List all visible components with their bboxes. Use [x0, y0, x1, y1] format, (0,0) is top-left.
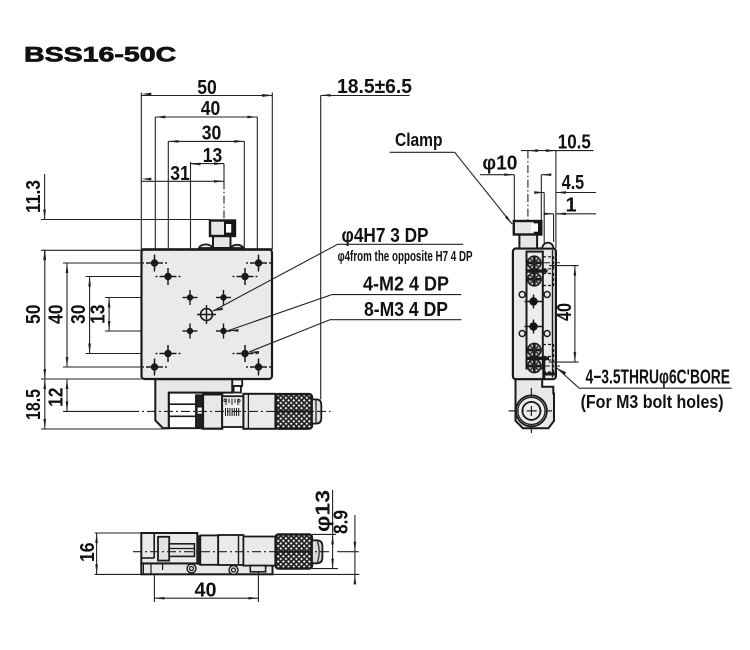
bottom view lock block — [200, 535, 218, 564]
bottom view barrel — [243, 537, 275, 566]
screw centerlines — [543, 263, 560, 366]
svg-text:50: 50 — [197, 77, 217, 99]
clamp neck — [213, 236, 231, 248]
side dome — [542, 243, 553, 249]
screw phillips 4 — [528, 359, 541, 372]
micrometer centerline — [130, 410, 331, 412]
annotation 4-3.5 THRU — [557, 366, 732, 411]
hole M2 top-left — [183, 290, 198, 305]
annotation φ4H7 3 DP — [213, 225, 463, 311]
screw phillips 3 — [528, 343, 541, 356]
clamp dome left — [199, 244, 213, 248]
hole M2 top-right — [216, 290, 231, 305]
label Clamp — [390, 130, 513, 224]
side hole 4 — [544, 331, 550, 337]
side hole 3 — [519, 331, 525, 337]
side clamp centerline — [527, 151, 529, 255]
knob centerline — [223, 164, 225, 182]
bottom knurl — [276, 534, 312, 568]
bottom cap — [312, 540, 322, 563]
thimble end circles — [516, 395, 547, 426]
svg-text:4.5: 4.5 — [562, 172, 585, 194]
plate top edge thick — [142, 248, 273, 250]
dimension 11.3 — [23, 174, 46, 260]
svg-text:BSS16-50C: BSS16-50C — [24, 43, 176, 66]
svg-text:φ4H7 3 DP: φ4H7 3 DP — [342, 225, 429, 247]
annotation 4-M2 4 DP — [229, 274, 462, 332]
dimension φ10 — [480, 153, 551, 222]
dimension 12 left bottom — [46, 379, 131, 411]
spindle rod — [169, 403, 196, 405]
side hole 2 — [544, 292, 550, 298]
clamp band top — [527, 269, 548, 273]
dimension 31 — [141, 163, 224, 185]
bottom view sleeve block — [218, 535, 243, 565]
bottom view foot — [250, 566, 265, 572]
svg-text:1: 1 — [566, 195, 577, 217]
svg-text:4−3.5THRUφ6C'BORE: 4−3.5THRUφ6C'BORE — [586, 366, 731, 388]
side clamp knob — [514, 221, 542, 235]
svg-text:12: 12 — [46, 388, 68, 408]
svg-text:31: 31 — [170, 163, 190, 185]
plate (top stage) — [142, 250, 273, 380]
hole M3 outer bottom-right — [246, 359, 271, 376]
graduated sleeve — [222, 396, 243, 427]
clamp knob — [210, 221, 235, 237]
extension line knob top (11.3 upper ref) — [41, 219, 210, 221]
bracket under plate — [155, 379, 232, 428]
svg-text:13: 13 — [88, 305, 110, 325]
svg-text:8.9: 8.9 — [331, 510, 353, 534]
svg-text:40: 40 — [554, 303, 576, 321]
hole M3 outer bottom-left — [142, 359, 167, 376]
svg-text:40: 40 — [201, 98, 221, 120]
dimension 50 left — [23, 250, 46, 380]
svg-text:φ10: φ10 — [482, 153, 517, 175]
svg-text:50: 50 — [23, 305, 45, 325]
svg-text:16: 16 — [77, 543, 99, 563]
annotation 8-M3 4 DP — [249, 299, 461, 354]
circle crosshairs — [509, 410, 552, 412]
spindle end cap — [312, 399, 321, 423]
screw phillips 1 — [528, 256, 541, 269]
bottom view base strip — [141, 563, 272, 574]
dimension 4.5 — [534, 172, 596, 243]
bracket tab — [232, 380, 242, 387]
hole M3 outer top-right — [246, 255, 271, 272]
extension line plate top left (11.3 lower ref) — [41, 249, 142, 251]
dimension 30 top — [168, 123, 244, 269]
bottom view divider — [197, 535, 200, 564]
set screw 1 — [525, 295, 543, 309]
svg-text:18.5±6.5: 18.5±6.5 — [337, 76, 412, 98]
side body — [513, 249, 556, 380]
svg-text:40: 40 — [46, 305, 68, 325]
svg-text:40: 40 — [195, 579, 217, 601]
screw phillips 2 — [528, 273, 541, 286]
dimension 30 left — [68, 277, 168, 354]
hole M3 inner top-left — [156, 268, 181, 285]
dimension 40 left — [46, 263, 155, 367]
center hole φ4H7 — [197, 305, 216, 324]
dimension 1 — [544, 195, 596, 243]
svg-text:8-M3 4 DP: 8-M3 4 DP — [364, 299, 448, 321]
hole M3 inner bottom-right — [233, 345, 258, 362]
dimension 50 top — [141, 77, 272, 250]
svg-text:11.3: 11.3 — [23, 180, 45, 213]
sleeve graduations — [226, 399, 238, 406]
dimension 18.5 left bottom — [23, 379, 163, 429]
dimension φ13 — [312, 490, 338, 569]
svg-text:4-M2 4 DP: 4-M2 4 DP — [363, 274, 449, 296]
fork outline — [163, 393, 203, 429]
lock nut — [203, 394, 222, 428]
hole M3 inner bottom-left — [156, 345, 181, 362]
side bottom bracket — [516, 379, 555, 428]
side inner plate — [527, 252, 543, 369]
inner plate bottom thick — [543, 373, 556, 376]
dimension 16 — [77, 533, 141, 574]
barrel — [243, 394, 275, 429]
dimension 18.5±6.5 — [258, 76, 412, 400]
dimension 40 bottom — [154, 572, 258, 602]
svg-text:(For M3 bolt holes): (For M3 bolt holes) — [581, 392, 724, 412]
dimension 40 right side — [549, 266, 579, 363]
dimension 10.5 — [521, 131, 594, 248]
hole M2 bottom-right — [216, 324, 231, 339]
counterbore hidden lines — [543, 257, 554, 372]
side clamp neck — [519, 235, 537, 249]
hole M3 outer top-left — [142, 255, 167, 272]
svg-text:18.5: 18.5 — [23, 389, 45, 420]
dimension 13 top — [191, 145, 225, 290]
svg-text:10.5: 10.5 — [558, 131, 591, 153]
dimension 40 top — [155, 98, 257, 256]
side hole 1 — [519, 292, 525, 298]
svg-text:Clamp: Clamp — [395, 130, 443, 150]
clamp bar dark — [196, 395, 201, 427]
svg-text:13: 13 — [203, 145, 223, 167]
set screw 2 — [525, 320, 543, 334]
bottom screws — [187, 564, 196, 573]
clamp dome right — [231, 245, 244, 248]
bottom centerline — [133, 551, 331, 553]
hole M3 inner top-right — [233, 268, 258, 285]
svg-text:30: 30 — [202, 123, 222, 145]
clamp band bottom — [527, 356, 550, 360]
bottom view main block — [141, 533, 197, 563]
svg-text:φ4from the opposite H7 4 DP: φ4from the opposite H7 4 DP — [338, 249, 473, 265]
hole M2 bottom-left — [183, 324, 198, 339]
thimble knurled — [276, 394, 312, 429]
dimension 8.9 — [273, 510, 360, 584]
dimension 13 left — [88, 298, 191, 332]
